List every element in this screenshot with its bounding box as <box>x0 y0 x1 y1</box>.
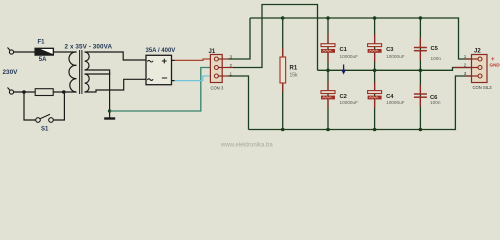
wire secondary bottom to bridge <box>85 79 146 92</box>
svg-text:S1: S1 <box>41 127 49 133</box>
wire secondary centre taps <box>85 70 110 74</box>
bridge rectifier BR1 <box>146 55 172 84</box>
svg-text:J2: J2 <box>474 49 481 55</box>
wire secondary top to bridge <box>85 52 146 60</box>
switch S1 <box>36 114 54 122</box>
svg-text:10000uF: 10000uF <box>340 54 359 59</box>
svg-text:C1: C1 <box>340 47 348 53</box>
svg-text:CON 3: CON 3 <box>211 85 224 90</box>
svg-text:10000uF: 10000uF <box>340 100 359 105</box>
wire terminal to node A <box>14 91 36 93</box>
svg-text:C5: C5 <box>431 46 439 52</box>
svg-text:CON SIL3: CON SIL3 <box>473 85 493 90</box>
svg-text:230V: 230V <box>3 69 19 76</box>
junction node B <box>62 90 66 94</box>
capacitor C3 <box>368 18 382 70</box>
wire J1 pin3 to +V bus <box>229 18 251 59</box>
svg-text:R1: R1 <box>290 65 298 71</box>
transformer TR1 <box>69 50 89 94</box>
svg-text:F1: F1 <box>38 40 46 46</box>
wire +V top bus <box>250 18 472 59</box>
wire NTC to node B <box>53 91 76 93</box>
J2 pin numbers 1 2 3 <box>464 54 467 76</box>
svg-text:2: 2 <box>230 63 233 68</box>
capacitor C4 <box>368 70 382 129</box>
wire R1 column <box>282 18 284 130</box>
capacitor C5 <box>414 18 427 70</box>
wire J1 pin1 to -V bus <box>229 76 249 130</box>
J2 pin leads <box>454 59 479 76</box>
svg-text:C4: C4 <box>386 94 394 100</box>
svg-text:5A: 5A <box>39 57 47 63</box>
wire -V bottom bus <box>249 76 472 130</box>
terminal T1 (230V live input) <box>8 48 14 55</box>
terminal T2 (230V neutral input) <box>8 88 14 95</box>
wire switch branch right <box>53 92 64 120</box>
bridge output stubs <box>172 59 176 61</box>
svg-text:10000uF: 10000uF <box>386 100 405 105</box>
J1 pin leads <box>218 59 233 76</box>
svg-text:2 x 35V - 300VA: 2 x 35V - 300VA <box>65 43 113 50</box>
svg-text:15k: 15k <box>290 73 299 79</box>
junction dots bottom bus <box>281 128 422 132</box>
resistor R1 <box>280 18 286 130</box>
svg-text:C3: C3 <box>386 47 394 53</box>
wire bridge + to J1 pin1 (red) <box>175 59 215 60</box>
primary winding <box>69 52 77 92</box>
core <box>79 50 81 94</box>
wire bridge - to J1 pin3 (cyan) <box>175 76 215 81</box>
svg-text:3: 3 <box>464 71 467 76</box>
wire GND net to J1 pin 2 (teal) <box>110 68 215 112</box>
svg-text:J1: J1 <box>209 49 216 55</box>
fuse F1 <box>35 48 54 55</box>
wire J1 pin2 GND over-route <box>233 5 318 71</box>
secondary winding upper <box>85 52 90 70</box>
junction dots middle bus <box>326 69 422 73</box>
svg-text:www.elektronika.ba: www.elektronika.ba <box>220 143 273 149</box>
wire GND middle bus <box>318 68 472 71</box>
svg-text:2: 2 <box>464 63 467 68</box>
capacitor C2 <box>321 70 335 129</box>
connector J1 <box>210 55 222 83</box>
wire fuse to transformer primary <box>54 51 77 53</box>
bridge terminal marks <box>148 59 167 80</box>
J1 pin numbers 3 2 1 <box>230 54 233 76</box>
svg-text:C2: C2 <box>340 94 347 100</box>
junction centre-tap / GND wire <box>108 109 111 112</box>
ground <box>104 117 115 119</box>
svg-text:100n: 100n <box>430 100 441 105</box>
resistor NTC (inrush limiter) <box>35 89 53 96</box>
capacitor C1 <box>321 18 335 70</box>
capacitor C6 <box>414 70 427 129</box>
junction dots top bus <box>281 16 422 20</box>
wire centre tap down to ground <box>109 72 111 118</box>
wire switch branch left <box>24 92 36 120</box>
origin marker (blue arrow on GND bus) <box>343 65 345 72</box>
svg-text:10000uF: 10000uF <box>386 54 405 59</box>
svg-text:35A / 400V: 35A / 400V <box>146 48 176 54</box>
svg-text:100n: 100n <box>431 56 442 61</box>
wire terminal to fuse <box>14 51 35 53</box>
svg-text:GND: GND <box>490 63 500 68</box>
connector J2 <box>472 55 488 83</box>
secondary winding lower <box>85 74 90 92</box>
junction node A <box>22 90 26 94</box>
svg-text:1: 1 <box>464 54 467 59</box>
